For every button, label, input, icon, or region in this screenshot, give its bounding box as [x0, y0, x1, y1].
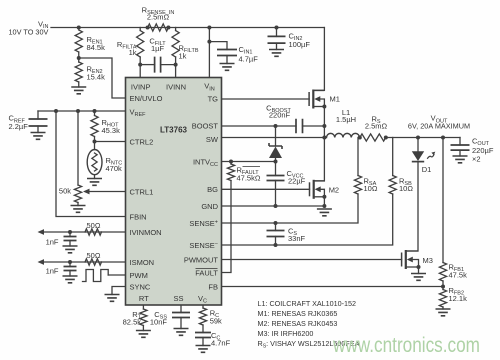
node RHOT branch	[93, 109, 97, 113]
resistor RS 2.5mOhm	[360, 134, 386, 141]
ground below pot	[77, 203, 79, 206]
node 1nF branch IVINMON	[68, 230, 72, 234]
capacitor COUT 220uF x2	[459, 138, 461, 146]
svg-text:LT3763: LT3763	[160, 126, 188, 135]
diode D1 LED	[417, 138, 419, 152]
svg-text:M3: M3	[423, 256, 433, 265]
node junction between REN1 and REN2	[77, 56, 81, 60]
node SW junction	[322, 136, 326, 140]
ground below CC	[202, 338, 204, 346]
svg-text:IVINN: IVINN	[166, 83, 186, 92]
svg-text:GND: GND	[201, 202, 218, 211]
svg-text:CTRL1: CTRL1	[130, 188, 154, 197]
svg-text:22µF: 22µF	[288, 177, 306, 186]
svg-text:1nF: 1nF	[46, 266, 59, 275]
wire PWM pin	[108, 274, 125, 276]
ground below SYNC	[105, 295, 120, 302]
wire VIN pin stub	[207, 26, 211, 30]
svg-text:IVINP: IVINP	[131, 83, 151, 92]
capacitor CIN2 100uF	[276, 28, 278, 37]
svg-text:82.5k: 82.5k	[123, 318, 142, 327]
svg-text:FB: FB	[208, 283, 218, 292]
wire to FBIN pin	[56, 111, 126, 217]
capacitor CSS 10nF	[180, 305, 182, 313]
svg-text:10Ω: 10Ω	[364, 184, 378, 193]
node FB junction	[441, 285, 445, 289]
resistor REN1 84.5k	[75, 30, 82, 52]
svg-text:EN/UVLO: EN/UVLO	[130, 94, 163, 103]
svg-text:FAULT: FAULT	[195, 269, 218, 278]
svg-text:50Ω: 50Ω	[87, 221, 101, 230]
svg-text:470k: 470k	[106, 164, 123, 173]
wire BG to M2 gate	[222, 188, 310, 190]
node 50k pot branch	[76, 109, 80, 113]
wire M3 source to ground	[418, 267, 420, 274]
ground at M2 source	[317, 209, 332, 216]
capacitor CC 4.7nF	[202, 325, 204, 333]
svg-text:1k: 1k	[129, 48, 137, 57]
resistor REN2 15.4k	[75, 62, 82, 82]
wire FB	[222, 286, 444, 288]
svg-text:www.cntronics.com: www.cntronics.com	[332, 334, 480, 357]
svg-text:FBIN: FBIN	[130, 213, 147, 222]
wire CTRL2	[95, 141, 126, 143]
capacitor 1nF ISMON	[69, 262, 71, 267]
svg-text:4.7nF: 4.7nF	[211, 339, 231, 348]
svg-text:TG: TG	[208, 95, 219, 104]
capacitor CFILT 1uF	[138, 63, 142, 67]
wire BOOST	[222, 125, 297, 127]
resistor RFB2 12.1k	[442, 287, 444, 290]
wire D1 to M3 drain	[406, 162, 418, 251]
capacitor CREF 2.2uF	[37, 111, 39, 119]
svg-text:L1: COILCRAFT XAL1010-152: L1: COILCRAFT XAL1010-152	[258, 299, 357, 308]
wire SYNC to ground	[112, 287, 126, 295]
transistor M1	[308, 92, 310, 106]
svg-text:45.3k: 45.3k	[102, 126, 121, 135]
wire RFAULT to FAULT pin	[222, 181, 232, 273]
svg-text:10nF: 10nF	[150, 318, 168, 327]
svg-text:SENSE−: SENSE−	[189, 241, 218, 250]
resistor RSB 10 ohm	[392, 138, 394, 176]
svg-text:SS: SS	[173, 294, 183, 303]
node 1nF branch ISMON	[68, 260, 72, 264]
wire VIN rail to M1 drain	[313, 28, 324, 91]
diode boost schottky	[275, 126, 277, 146]
node FBIN branch	[54, 109, 58, 113]
svg-text:SYNC: SYNC	[130, 283, 151, 292]
resistor RC 59k	[202, 305, 204, 308]
svg-text:100µF: 100µF	[289, 40, 311, 49]
node junction R_EN1 top	[77, 26, 81, 30]
wire ISMON with arrow	[43, 261, 126, 263]
resistor RFB1 47.5k	[442, 138, 444, 263]
resistor RFAULT 47.5k	[230, 162, 232, 165]
ground below CSS	[180, 318, 182, 329]
svg-text:1µF: 1µF	[151, 44, 164, 53]
svg-text:50k: 50k	[59, 186, 71, 195]
capacitor CIN1 4.7uF	[207, 40, 211, 44]
svg-text:2.5mΩ: 2.5mΩ	[147, 13, 170, 22]
svg-text:84.5k: 84.5k	[87, 43, 106, 52]
svg-text:M2: M2	[329, 185, 339, 194]
svg-text:47.5k: 47.5k	[449, 270, 468, 279]
node CIN2 junction	[275, 26, 279, 30]
ground below COUT	[453, 156, 468, 163]
capacitor CS 33nF	[275, 223, 277, 231]
wire M2 source to ground	[323, 197, 325, 206]
wire TG to M1 gate	[222, 98, 310, 100]
svg-text:PWMOUT: PWMOUT	[184, 256, 219, 265]
svg-text:M1: RENESAS RJK0365: M1: RENESAS RJK0365	[258, 309, 338, 318]
svg-text:SW: SW	[206, 135, 219, 144]
ground below 1nF ISMON	[69, 271, 71, 277]
wire VREF rail	[38, 110, 126, 112]
transistor M3	[401, 253, 403, 267]
ground below RT	[142, 326, 144, 331]
resistor 50 ohm IVINMON	[85, 229, 102, 235]
svg-text:M3: IR IRFH6200: M3: IR IRFH6200	[258, 329, 314, 338]
ground below RNTC	[94, 175, 96, 179]
resistor RSA 10 ohm	[357, 138, 359, 176]
svg-text:1nF: 1nF	[46, 237, 59, 246]
op-amp U1 LT3763 body	[126, 78, 222, 306]
svg-text:220nF: 220nF	[269, 110, 291, 119]
node INTVCC RFAULT junction	[229, 160, 233, 164]
wire M1 source to SW node	[323, 107, 325, 138]
svg-text:15.4k: 15.4k	[87, 73, 106, 82]
svg-text:6V, 20A MAXIMUM: 6V, 20A MAXIMUM	[408, 121, 470, 130]
resistor RSENSE_IN 2.5mOhm	[146, 26, 150, 30]
svg-text:M1: M1	[330, 95, 340, 104]
wire CTRL1 wiper arrow	[88, 191, 126, 193]
wire INTVCC	[222, 161, 276, 163]
ground at M3 source	[411, 274, 426, 281]
wire SW	[222, 137, 325, 139]
node D1 junction	[416, 136, 420, 140]
capacitor 1nF IVINMON	[69, 232, 71, 237]
resistor RFILTB 1k	[175, 28, 177, 31]
svg-text:47.5kΩ: 47.5kΩ	[237, 173, 261, 182]
wire PWMOUT to M3 gate	[222, 259, 402, 261]
svg-text:D1: D1	[422, 165, 432, 174]
svg-text:10V TO 30V: 10V TO 30V	[9, 28, 49, 37]
resistor RT 82.5k	[142, 305, 144, 309]
svg-text:4.7µF: 4.7µF	[239, 54, 259, 63]
wire EN/UVLO from divider	[79, 58, 126, 98]
ground below REN2	[78, 82, 80, 87]
wire VOUT rail	[386, 137, 460, 139]
svg-text:1.5µH: 1.5µH	[336, 115, 356, 124]
wire IVINMON with arrow	[43, 231, 126, 233]
ground below CREF	[37, 126, 39, 133]
ground below 1nF IVINMON	[69, 241, 71, 247]
svg-text:1k: 1k	[179, 51, 187, 60]
resistor RFILTA 1k	[139, 28, 141, 31]
svg-text:BOOST: BOOST	[192, 122, 219, 131]
inductor L1 1.5uH	[327, 133, 360, 137]
resistor RHOT 45.3k	[94, 111, 96, 116]
svg-text:RT: RT	[139, 294, 149, 303]
svg-text:IVINMON: IVINMON	[130, 228, 162, 237]
resistor 50 ohm ISMON	[85, 259, 102, 265]
svg-text:2.2µF: 2.2µF	[9, 122, 29, 131]
wire SENSE+ to RSA	[222, 194, 359, 223]
svg-text:50Ω: 50Ω	[87, 251, 101, 260]
ground below CIN2	[269, 50, 284, 57]
svg-text:59k: 59k	[210, 316, 222, 325]
pwm squarewave symbol	[83, 270, 109, 282]
svg-text:12.1k: 12.1k	[449, 294, 468, 303]
svg-text:CTRL2: CTRL2	[130, 138, 154, 147]
wire M2 drain from SW	[314, 138, 325, 182]
svg-text:BG: BG	[207, 185, 218, 194]
svg-text:×2: ×2	[472, 154, 481, 163]
ground below RFB2	[442, 307, 444, 309]
svg-text:SENSE+: SENSE+	[189, 219, 218, 228]
wire GND pin	[222, 205, 325, 207]
node RHOT RNTC junction	[93, 140, 97, 144]
wire VIN input rail	[51, 27, 324, 29]
capacitor CBOOST 220nF	[274, 124, 278, 128]
svg-text:33nF: 33nF	[288, 234, 306, 243]
node INTVCC diode junction	[274, 160, 278, 164]
potentiometer 50k	[77, 111, 79, 185]
svg-text:10Ω: 10Ω	[399, 184, 413, 193]
transistor M2	[309, 182, 311, 196]
ground below CIN1	[220, 64, 235, 71]
wire SENSE- to RSB	[222, 194, 393, 245]
svg-text:ISMON: ISMON	[130, 258, 155, 267]
svg-text:M2: RENESAS RJK0453: M2: RENESAS RJK0453	[258, 319, 338, 328]
svg-text:2.5mΩ: 2.5mΩ	[365, 121, 388, 130]
thermistor RNTC 470k	[94, 142, 96, 150]
svg-text:PWM: PWM	[130, 271, 148, 280]
capacitor CVCC 22uF	[275, 162, 277, 176]
